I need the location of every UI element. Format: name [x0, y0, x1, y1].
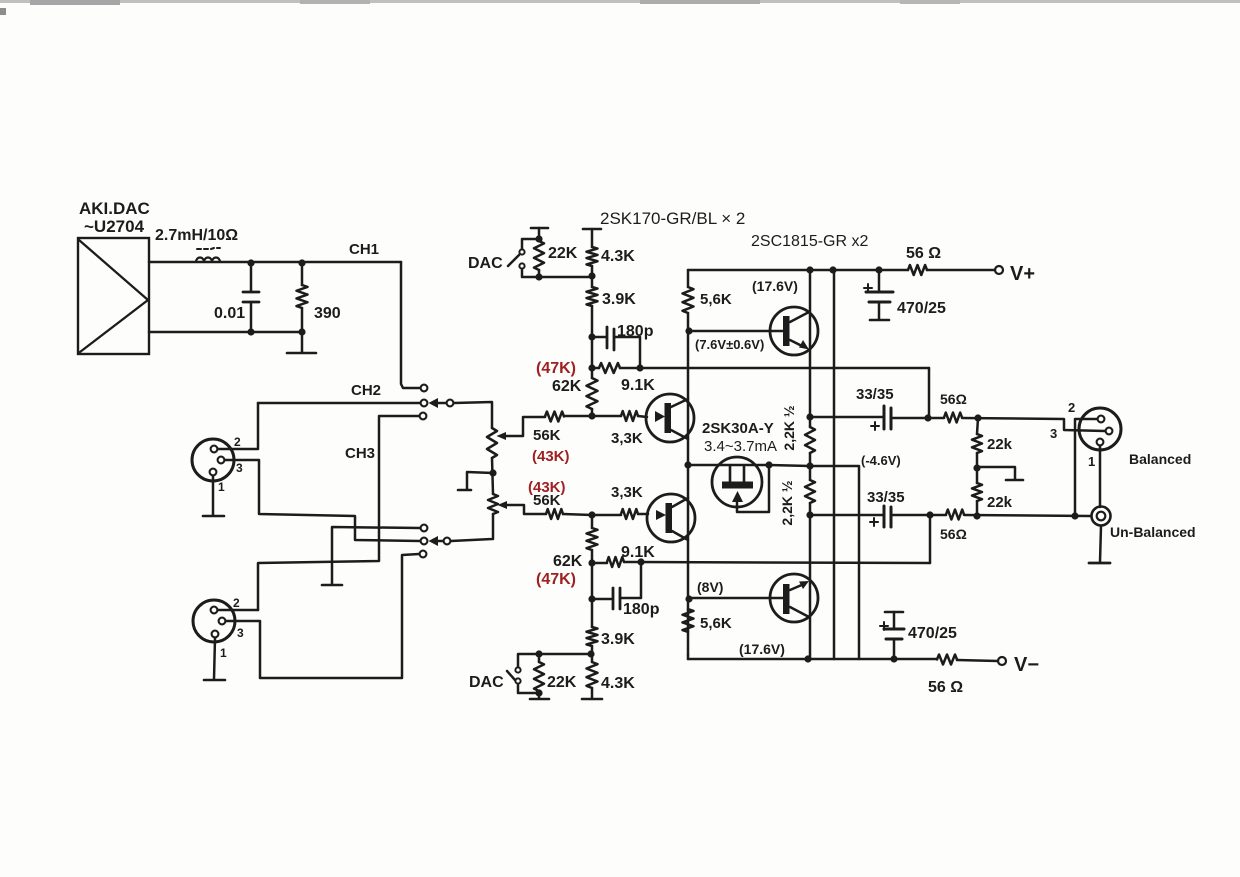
svg-text:3: 3 — [237, 626, 244, 640]
ground J1 pin1 — [203, 476, 224, 516]
label 4.3K upper — [601, 248, 635, 265]
node dot feedback tap lower — [926, 511, 933, 518]
potentiometer P1 element — [487, 428, 497, 458]
JFET Q1 gate arrow — [655, 411, 665, 422]
JFET Q5 gate arrow — [732, 491, 743, 502]
svg-text:33/35: 33/35 — [867, 489, 905, 506]
wire 9.1K lower line — [592, 562, 930, 563]
wire 56Ω lower to RCA — [964, 515, 1090, 516]
wire 180p lower to 9.1K line — [620, 562, 641, 598]
ground at S2a top contact — [322, 584, 342, 587]
node dot 22K top upper — [535, 235, 542, 242]
node dot cap tap at rail — [875, 266, 882, 273]
resistor 4.3K lower — [587, 662, 598, 698]
wire 4.3K to 3.9K — [591, 266, 594, 287]
wire 62K to 180p lower — [591, 563, 594, 599]
resistor 22K upper with T bar — [531, 228, 548, 277]
node dot feedback tap upper — [924, 414, 931, 421]
wire 56Ω upper to XLR pin3 — [962, 418, 1105, 431]
wire P1 bottom to P2 top — [492, 458, 493, 494]
svg-text:3,3K: 3,3K — [611, 430, 643, 447]
node dot top of 390 — [298, 259, 305, 266]
label 22K upper — [548, 245, 578, 262]
wire DAC-mute lower top — [518, 654, 591, 667]
svg-text:22k: 22k — [987, 494, 1013, 511]
node dot 180p/9.1K junction lower — [637, 558, 644, 565]
svg-text:V−: V− — [1014, 654, 1039, 676]
label Balanced — [1129, 451, 1191, 467]
terminal V- circle — [998, 657, 1006, 665]
switch DAC-mute lower contact A — [515, 667, 520, 672]
node dot output node upper — [806, 413, 813, 420]
node dot signal node upper — [588, 412, 595, 419]
label Un-Balanced — [1110, 524, 1196, 540]
label 3,3K lower — [611, 484, 643, 501]
left rail mid segment — [687, 313, 690, 655]
label 3.9K lower — [601, 631, 635, 648]
svg-text:390: 390 — [314, 305, 341, 322]
JFET Q1 source lead — [671, 430, 688, 439]
transistor Q3 base bar — [783, 316, 790, 346]
label (47K) upper — [536, 360, 576, 377]
wire 56K lower to grid node — [563, 514, 592, 515]
wire to 180p upper — [592, 336, 606, 339]
label (7.6V±0.6V) — [695, 337, 764, 352]
DAC block U1 box — [78, 238, 149, 354]
switch DAC-mute lower contact B — [515, 678, 520, 683]
resistor 4.3K upper — [587, 247, 598, 266]
resistor 62K lower — [587, 515, 598, 563]
svg-text:33/35: 33/35 — [856, 386, 894, 403]
label J1 pin 2 — [234, 435, 241, 449]
capacitor 33/35 lower plates — [884, 506, 891, 527]
node dot 9.1K tap lower — [588, 559, 595, 566]
switch S2a wiper arrow — [429, 536, 444, 546]
resistor 2.2K half upper — [805, 417, 815, 466]
wire 56K to grid node — [564, 415, 592, 418]
JFET Q5 channel bar — [722, 482, 753, 489]
label J1 pin 3 — [236, 461, 243, 475]
JFET Q2 gate arrow — [656, 510, 666, 520]
switch S2a middle contact — [421, 538, 428, 545]
switch S1a wiper arrow — [429, 398, 447, 408]
resistor 62K upper — [587, 378, 598, 409]
wire DAC-mute upper bottom — [522, 269, 592, 277]
label 62K lower — [553, 553, 583, 570]
svg-text:2.7mH/10Ω: 2.7mH/10Ω — [155, 227, 238, 244]
label AKI.DAC — [79, 199, 150, 218]
svg-text:4.3K: 4.3K — [601, 248, 635, 265]
resistor 390 — [297, 263, 308, 332]
wire J3 pin1 to RCA — [1099, 446, 1102, 507]
svg-text:180p: 180p — [623, 601, 660, 618]
label J3 pin 2 — [1068, 400, 1075, 415]
node dot 22k top — [974, 414, 981, 421]
svg-text:(8V): (8V) — [697, 579, 723, 595]
XLR J3 pin1 contact — [1097, 439, 1104, 446]
RCA output J4 inner — [1097, 512, 1106, 521]
wire P1 wiper to 56K — [505, 417, 545, 436]
capacitor 33/35 upper plus — [871, 422, 879, 430]
wire 33/35 lower to 56Ω — [891, 514, 946, 517]
XLR J2 pin1 contact — [212, 631, 219, 638]
svg-text:(-4.6V): (-4.6V) — [861, 453, 901, 468]
resistor 9.1K upper — [599, 363, 620, 373]
node dot Q3 collector at rail — [806, 266, 813, 273]
scan artifact top edge band — [0, 0, 1240, 15]
svg-text:3.9K: 3.9K — [601, 631, 635, 648]
XLR input J1 shell — [192, 439, 234, 481]
svg-text:AKI.DAC: AKI.DAC — [79, 199, 150, 218]
resistor 5.6K upper — [683, 287, 694, 313]
switch DAC-mute upper contact A — [519, 249, 524, 254]
transistor Q4 2SC1815 lower circle — [770, 574, 818, 622]
node dot signal node lower — [588, 511, 595, 518]
svg-text:CH2: CH2 — [351, 382, 381, 399]
ground hook at pot midpoint — [458, 472, 493, 490]
node dot Q4 collector at rail — [804, 655, 811, 662]
label 33/35 upper — [856, 386, 894, 403]
switch DAC-mute upper contact B — [519, 263, 524, 268]
label 56Ω V+ — [906, 245, 941, 262]
switch DAC-mute upper lever — [508, 255, 519, 266]
label (17.6V) lower — [739, 641, 785, 657]
label 2SC1815-GR x2 — [751, 233, 868, 250]
svg-text:3.9K: 3.9K — [602, 291, 636, 308]
node dot 22K bottom upper — [535, 273, 542, 280]
node dot 22k bottom — [973, 512, 980, 519]
svg-text:9.1K: 9.1K — [621, 544, 655, 561]
label 2.7mH/10Ω — [155, 227, 238, 244]
svg-text:1: 1 — [1088, 454, 1095, 469]
transistor Q4 collector lead — [790, 607, 809, 617]
label J2 pin 3 — [237, 626, 244, 640]
svg-text:(17.6V): (17.6V) — [752, 278, 798, 294]
wire 9.1K upper line to feedback corner — [592, 367, 929, 370]
svg-text:56K: 56K — [533, 492, 561, 509]
wire J2 pin3 to S2a bottom — [226, 554, 419, 678]
XLR input J2 shell — [193, 600, 235, 642]
switch S2a bottom contact — [420, 551, 427, 558]
label 470/25 upper — [897, 300, 946, 317]
svg-text:2,2K ½: 2,2K ½ — [779, 480, 795, 525]
wire J1 pin2 to CH2 line — [218, 403, 258, 449]
JFET Q2 drain lead — [672, 531, 688, 540]
node dot 22K top lower — [535, 650, 542, 657]
label 2,2K half upper — [781, 405, 797, 450]
resistor 9.1K lower — [607, 557, 624, 567]
resistor 56Ω output lower — [946, 510, 964, 520]
label 22K lower — [547, 674, 577, 691]
node dot top of 0.01 — [247, 259, 254, 266]
label (-4.6V) — [861, 453, 901, 468]
node dot output node lower — [806, 511, 813, 518]
node dot pot midpoint — [489, 469, 496, 476]
wire 3.9K to DAC node lower — [591, 646, 594, 662]
svg-text:56 Ω: 56 Ω — [928, 679, 963, 696]
label 2SK30A-Y — [702, 420, 774, 437]
svg-text:22k: 22k — [987, 436, 1013, 453]
top rail wire — [688, 269, 995, 272]
svg-text:3: 3 — [1050, 426, 1057, 441]
label DAC lower — [469, 674, 504, 691]
label 4.3K lower — [601, 675, 635, 692]
label CH1 — [349, 241, 379, 258]
capacitor 470/25 upper — [866, 270, 893, 320]
svg-text:2SC1815-GR x2: 2SC1815-GR x2 — [751, 233, 868, 250]
svg-text:(17.6V): (17.6V) — [739, 641, 785, 657]
capacitor 0.01 leads — [250, 263, 253, 332]
node dot source junction — [684, 461, 691, 468]
svg-text:Balanced: Balanced — [1129, 451, 1191, 467]
svg-text:3,3K: 3,3K — [611, 484, 643, 501]
switch S1a middle contact (CH2) — [421, 400, 428, 407]
ground below RCA — [1089, 526, 1110, 563]
label 2,2K half lower — [779, 480, 795, 525]
label V- — [1014, 654, 1039, 676]
label 3.4~3.7mA — [704, 438, 777, 455]
node dot bottom of 0.01 — [247, 328, 254, 335]
label ~U2704 — [84, 217, 145, 236]
wire feedback rise lower — [929, 515, 932, 563]
resistor 56Ω output upper — [944, 413, 962, 423]
ground below 390 — [287, 332, 316, 353]
svg-text:CH3: CH3 — [345, 445, 375, 462]
wire Q3 base — [690, 330, 783, 333]
wire DAC bottom output — [149, 331, 302, 334]
label 3.9K upper — [602, 291, 636, 308]
transistor Q3 collector lead — [790, 312, 809, 322]
svg-text:Un-Balanced: Un-Balanced — [1110, 524, 1196, 540]
svg-text:3.4~3.7mA: 3.4~3.7mA — [704, 438, 777, 455]
node dot gate-source tie — [765, 461, 772, 468]
svg-text:4.3K: 4.3K — [601, 675, 635, 692]
switch S2a top contact — [421, 525, 428, 532]
wire DAC-mute lower bottom — [518, 684, 539, 693]
svg-text:(47K): (47K) — [536, 360, 576, 377]
wire DAC top output — [149, 261, 401, 264]
inductor L1 2.7mH coil — [196, 248, 220, 262]
svg-text:3: 3 — [236, 461, 243, 475]
label CH3 — [345, 445, 375, 462]
node dot DAC mute junction upper — [588, 272, 595, 279]
wire DAC-mute upper top — [522, 239, 539, 249]
resistor 3.9K lower — [587, 627, 598, 646]
capacitor 470/25 upper plus — [864, 284, 872, 292]
potentiometer P2 element — [488, 494, 498, 514]
wire Q4 collector/emitter vertical — [809, 515, 812, 659]
svg-text:DAC: DAC — [469, 674, 504, 691]
XLR J2 pin3 contact — [219, 618, 226, 625]
label 56K lower — [533, 492, 561, 509]
resistor 2.2K half lower — [805, 466, 815, 515]
svg-text:(47K): (47K) — [536, 571, 576, 588]
svg-text:~U2704: ~U2704 — [84, 217, 145, 236]
svg-text:470/25: 470/25 — [897, 300, 946, 317]
RCA output J4 outer — [1092, 507, 1111, 526]
wire XLR pin2 tie vertical — [1075, 419, 1097, 516]
node dot mid bias node — [806, 462, 813, 469]
label 56Ω output upper — [940, 391, 967, 407]
svg-text:56 Ω: 56 Ω — [906, 245, 941, 262]
label 390 — [314, 305, 341, 322]
svg-text:22K: 22K — [548, 245, 578, 262]
resistor 5.6K lower — [683, 609, 694, 632]
node dot bottom of 390 — [298, 328, 305, 335]
XLR J3 pin2 contact — [1098, 416, 1105, 423]
label 180p lower — [623, 601, 660, 618]
label 5,6K upper — [700, 291, 732, 308]
wire 33/35 upper to 56Ω — [891, 417, 944, 420]
resistor 22K lower — [534, 654, 544, 698]
svg-text:1: 1 — [220, 646, 227, 660]
ground below 4.3K lower — [582, 698, 602, 701]
capacitor 470/25 lower — [884, 612, 904, 659]
label 22k upper — [987, 436, 1013, 453]
svg-text:1: 1 — [218, 480, 225, 494]
node dot mid rail top — [829, 266, 836, 273]
left rail top segment — [687, 270, 690, 287]
wire source junction line — [688, 464, 769, 467]
svg-text:470/25: 470/25 — [908, 625, 957, 642]
XLR J1 pin1 contact — [210, 469, 217, 476]
wire CH2 line to S1a middle — [258, 402, 420, 405]
wire output node to 33/35 upper — [810, 416, 884, 419]
XLR J3 pin3 contact — [1106, 428, 1113, 435]
wire P2 wiper to 56K lower — [506, 505, 546, 514]
wire Q4 base — [690, 597, 783, 600]
svg-text:56K: 56K — [533, 427, 561, 444]
node dot 180p/9.1K junction upper — [636, 364, 643, 371]
svg-text:2SK30A-Y: 2SK30A-Y — [702, 420, 774, 437]
wire output node to 33/35 lower — [810, 514, 884, 517]
svg-text:5,6K: 5,6K — [700, 615, 732, 632]
svg-text:62K: 62K — [552, 378, 582, 395]
label J2 pin 1 — [220, 646, 227, 660]
node dot 22K bottom lower — [535, 689, 542, 696]
capacitor 33/35 upper plates — [884, 406, 891, 429]
label 3,3K upper — [611, 430, 643, 447]
node dot DAC mute junction lower — [587, 650, 594, 657]
JFET Q1 drain lead — [671, 399, 688, 407]
node dot 180p tap lower — [588, 595, 595, 602]
transistor Q4 emitter lead — [790, 581, 809, 590]
switch S1a common contact — [447, 400, 454, 407]
svg-text:56Ω: 56Ω — [940, 526, 967, 542]
wire CH1 vertical drop — [401, 262, 419, 388]
wire J1 pin3 to S2a middle — [225, 460, 420, 541]
wire 62K to signal node — [591, 409, 594, 416]
wire Q3 collector/emitter vertical — [809, 270, 812, 417]
svg-text:2: 2 — [233, 596, 240, 610]
switch S1a bottom contact (CH3) — [420, 413, 427, 420]
svg-text:2SK170-GR/BL × 2: 2SK170-GR/BL × 2 — [600, 209, 745, 228]
ground hook at 22k midpoint — [977, 467, 1023, 480]
resistor 56K upper — [545, 412, 564, 422]
label DAC upper — [468, 255, 503, 272]
node dot cap tap at rail lower — [890, 655, 897, 662]
potentiometer P2 wiper arrow — [498, 501, 508, 509]
capacitor 0.01 plates — [243, 292, 259, 302]
resistor 22k lower — [972, 468, 982, 516]
wire J2 pin2 lead — [218, 609, 258, 612]
DAC block triangle — [79, 240, 148, 352]
svg-text:CH1: CH1 — [349, 241, 379, 258]
JFET Q5 2SK30A circle — [712, 457, 762, 507]
switch S2a common contact — [444, 538, 451, 545]
label 5,6K lower — [700, 615, 732, 632]
JFET Q2 2SK170 lower circle — [647, 494, 695, 542]
svg-text:9.1K: 9.1K — [621, 377, 655, 394]
JFET Q5 source prong — [743, 466, 746, 483]
svg-text:5,6K: 5,6K — [700, 291, 732, 308]
JFET Q2 channel bar — [666, 503, 673, 533]
label 33/35 lower — [867, 489, 905, 506]
svg-text:(43K): (43K) — [532, 448, 570, 465]
svg-text:2: 2 — [1068, 400, 1075, 415]
label J3 pin 1 — [1088, 454, 1095, 469]
XLR J1 pin3 contact — [218, 457, 225, 464]
label J1 pin 1 — [218, 480, 225, 494]
bottom rail wire — [688, 655, 998, 661]
svg-text:(7.6V±0.6V): (7.6V±0.6V) — [695, 337, 764, 352]
ground below 22K lower — [530, 698, 549, 701]
wire 180p upper to 9.1K line — [614, 337, 640, 368]
JFET Q2 source lead — [672, 498, 688, 507]
potentiometer P1 wiper arrow — [497, 432, 507, 440]
wire 180p node down to 3.9K — [591, 599, 594, 627]
svg-text:22K: 22K — [547, 674, 577, 691]
label (47K) lower — [536, 571, 576, 588]
svg-text:62K: 62K — [553, 553, 583, 570]
resistor 56Ω V- series — [937, 655, 957, 665]
label (43K) lower — [528, 479, 566, 496]
XLR output J3 shell — [1079, 408, 1121, 450]
label CH2 — [351, 382, 381, 399]
node dot Q4 base node — [685, 595, 692, 602]
JFET Q5 drain prong — [729, 466, 732, 483]
ground J2 pin1 — [204, 638, 225, 680]
switch DAC-mute lower lever — [507, 671, 515, 680]
capacitor 33/35 lower plus — [870, 518, 878, 526]
svg-text:V+: V+ — [1010, 263, 1035, 285]
label 56Ω output lower — [940, 526, 967, 542]
svg-text:0.01: 0.01 — [214, 305, 245, 322]
resistor 3.9K upper — [587, 287, 598, 306]
label 62K upper — [552, 378, 582, 395]
transistor Q3 emitter lead — [790, 340, 809, 350]
capacitor 470/25 lower plus — [880, 622, 888, 630]
wire mid vertical rail — [833, 270, 836, 659]
node dot 180p tap upper — [588, 333, 595, 340]
wire mid node to minus4.6 drop — [810, 466, 859, 659]
switch S1a top contact (CH1) — [421, 385, 428, 392]
wire S1a common to pot P1 top — [454, 402, 492, 428]
label 56K upper — [533, 427, 561, 444]
label 2SK170-GR/BL x 2 — [600, 209, 745, 228]
JFET Q1 2SK170 upper circle — [646, 394, 694, 442]
wire cs node to mid node — [769, 465, 810, 466]
label 9.1K lower — [621, 544, 655, 561]
XLR J1 pin2 contact — [211, 446, 218, 453]
label 9.1K upper — [621, 377, 655, 394]
label 0.01 — [214, 305, 245, 322]
svg-text:DAC: DAC — [468, 255, 503, 272]
transistor Q3 2SC1815 upper circle — [770, 307, 818, 355]
wire 3.9K down to gate bias node — [591, 306, 594, 378]
JFET Q1 channel bar — [665, 403, 672, 433]
resistor 56Ω V+ series — [908, 265, 927, 275]
